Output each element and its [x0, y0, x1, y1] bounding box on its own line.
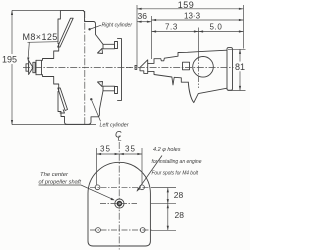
bottom view: lower holes centerline: [90, 229, 152, 231]
dim 28 extensions: [151, 187, 176, 230]
bottom view: bolt hole top-left: [95, 185, 100, 190]
left view: engine body outline: [60, 10, 103, 44]
svg-text:36: 36: [138, 11, 148, 21]
svg-text:Right cylinder: Right cylinder: [102, 23, 134, 29]
dim 195 arrows: [11, 10, 13, 124]
svg-text:7.3: 7.3: [165, 23, 178, 32]
svg-text:L: L: [118, 134, 122, 143]
svg-text:35: 35: [100, 144, 111, 153]
dim 36 line: [137, 21, 152, 23]
svg-text:The center: The center: [40, 172, 69, 178]
left view: upper ear bracket: [115, 42, 118, 49]
dim 35 extensions: [97, 148, 143, 185]
left view: shaft washer: [33, 62, 35, 72]
svg-text:159: 159: [178, 0, 195, 10]
right view ext 73/50: [198, 28, 200, 56]
svg-text:5.0: 5.0: [210, 23, 223, 32]
svg-text:Left cylinder: Left cylinder: [100, 123, 130, 129]
right view: lower profile: [148, 71, 189, 85]
left view: left staircase upper: [36, 10, 60, 60]
left view: vertical centerline: [84, 11, 86, 124]
right view: horizontal centerline: [126, 66, 246, 68]
right view: water fin: [188, 82, 227, 102]
leader to top-right hole: [137, 156, 162, 192]
bottom view: bolt hole top-right: [140, 185, 145, 190]
right view: mounting plate: [227, 48, 233, 91]
dim 195 line: [11, 10, 13, 124]
left view: mounting plate edge: [118, 39, 122, 101]
dim 195 extension top: [12, 9, 84, 11]
svg-text:Four spots for M4 bolt: Four spots for M4 bolt: [152, 170, 199, 176]
svg-text:of propeller shaft: of propeller shaft: [39, 179, 82, 185]
left view: lower cylinder: [58, 88, 68, 111]
left view: horizontal centerline: [23, 67, 131, 69]
left view: lower cylinder foot: [60, 110, 65, 113]
dim 35 arrows: [97, 153, 169, 230]
left view: shaft end cap: [26, 64, 29, 71]
svg-text:28: 28: [174, 190, 184, 200]
right view: flange triangle: [140, 60, 148, 74]
left view: upper cylinder: [58, 18, 74, 47]
dim 81 extensions: [228, 49, 246, 90]
svg-text:M8×125: M8×125: [23, 32, 58, 42]
bottom view: bolt hole bottom-right: [140, 228, 145, 233]
bottom view: plate outline: [88, 162, 150, 246]
right view ext right: [243, 5, 245, 49]
left view: upper mounting ear: [103, 44, 115, 49]
left view: shaft block: [36, 60, 42, 74]
arrows top dims: [137, 8, 244, 91]
right view ext 73/50 lower dashdot: [198, 55, 200, 88]
right view: shaft end cap: [135, 65, 137, 69]
dim 73/50 line: [152, 31, 244, 33]
left view: lower mounting ear: [103, 86, 115, 91]
left view: shaft cone: [29, 61, 33, 75]
bottom view: bolt hole bottom-left: [96, 228, 101, 233]
dim 195 text: [2, 54, 20, 64]
bottom view: upper holes centerline: [90, 186, 150, 188]
bottom view: propeller shaft hole: [115, 199, 124, 208]
right view: outline group: [135, 48, 233, 103]
dim 81 line: [239, 49, 241, 90]
bottom view: vertical centerline: [118, 142, 120, 250]
right view: upper profile: [148, 50, 227, 63]
svg-text:35: 35: [125, 144, 136, 153]
dim 35 line: [97, 153, 143, 155]
svg-text:28: 28: [175, 210, 185, 220]
svg-text:13·3: 13·3: [184, 12, 201, 21]
right view: coupling circle: [193, 57, 214, 78]
dim 133 line: [152, 19, 244, 21]
dim 195 extension bottom: [12, 124, 96, 126]
svg-text:81: 81: [235, 62, 245, 72]
left view: lower ear bracket: [115, 87, 118, 94]
left view: left staircase lower: [36, 75, 67, 125]
right view: gearcase plug rect: [183, 62, 190, 70]
right view ext 36/133: [151, 16, 153, 59]
right view ext left: [136, 5, 138, 67]
dim 159 line: [137, 8, 244, 10]
left view: upper weld triangle: [98, 49, 103, 54]
svg-text:4.2 φ holes: 4.2 φ holes: [153, 147, 181, 153]
left view: lower weld triangle: [98, 82, 103, 87]
left view: lower right body profile: [67, 91, 103, 125]
svg-text:195: 195: [2, 54, 17, 64]
bottom view: shaft hole centerline: [100, 203, 137, 205]
dim 28 line: [167, 188, 169, 231]
